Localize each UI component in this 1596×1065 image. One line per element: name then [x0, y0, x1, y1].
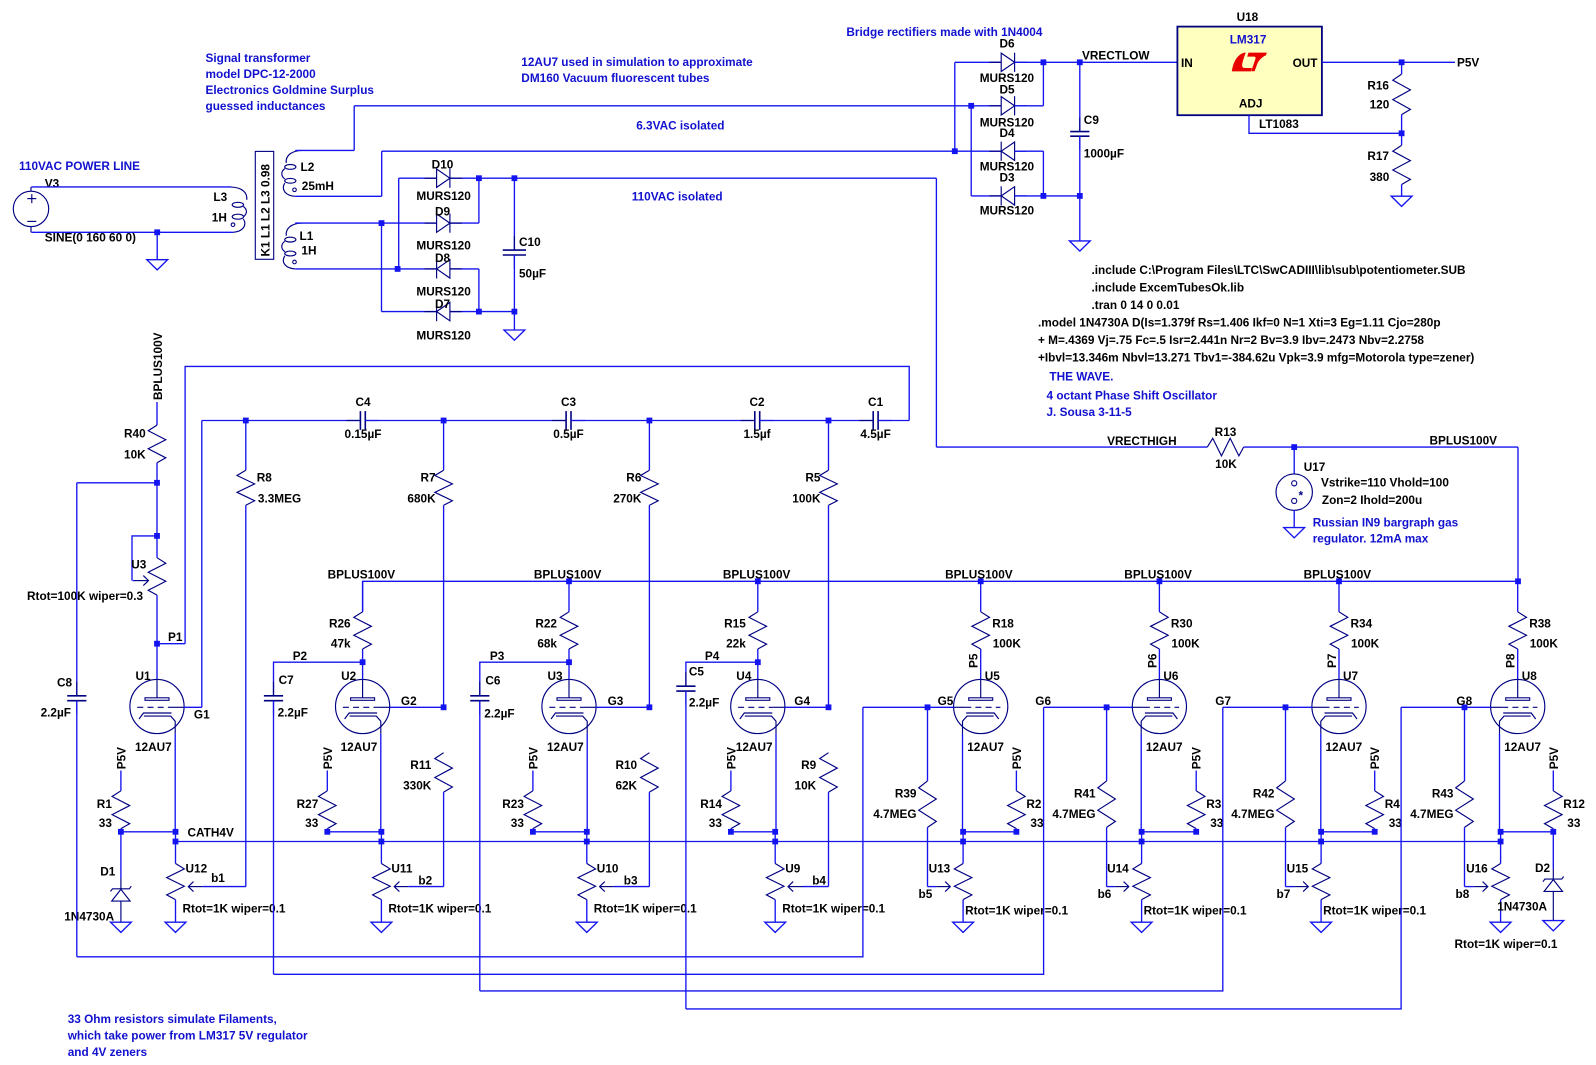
svg-text:U18: U18 — [1237, 10, 1259, 24]
wiper arrow b8 — [1465, 882, 1488, 892]
value U11 Rtot — [388, 902, 491, 916]
label C2 — [749, 395, 765, 409]
label C5 — [689, 664, 705, 678]
svg-text:P5V: P5V — [1547, 747, 1561, 769]
svg-text:R7: R7 — [421, 471, 437, 485]
label R17 — [1367, 149, 1389, 163]
potentiometer U9 — [766, 842, 784, 923]
wire to CATH4V stage 4 — [774, 832, 776, 842]
junction CATH4V stage 1 — [173, 839, 179, 845]
wire D10 row — [399, 177, 437, 179]
svg-text:C6: C6 — [485, 674, 501, 688]
wire cathode U5 — [962, 734, 964, 832]
wire cathode U2 — [380, 734, 382, 832]
wire D4 out — [1015, 150, 1044, 152]
svg-text:J. Sousa 3-11-5: J. Sousa 3-11-5 — [1047, 405, 1133, 419]
label R34 — [1351, 617, 1373, 631]
svg-text:2.2µF: 2.2µF — [484, 707, 514, 721]
net label P5V stage 6 — [1190, 747, 1204, 769]
svg-text:33: 33 — [511, 816, 525, 830]
net label b6 — [1098, 887, 1112, 901]
svg-text:R8: R8 — [257, 471, 273, 485]
wire G7 — [1223, 706, 1312, 708]
capacitor C1 — [859, 411, 892, 430]
svg-text:U10: U10 — [597, 862, 619, 876]
resistor R23 — [524, 771, 542, 832]
ground below U10 — [576, 922, 597, 932]
junction D10 out — [476, 175, 482, 181]
ground below D2 — [1543, 921, 1564, 931]
wire route C8 to G5 — [77, 707, 863, 957]
svg-text:6.3VAC isolated: 6.3VAC isolated — [636, 118, 724, 132]
label U9 — [785, 862, 801, 876]
svg-text:120: 120 — [1370, 98, 1390, 112]
svg-text:Rtot=1K wiper=0.1: Rtot=1K wiper=0.1 — [1323, 904, 1426, 918]
junction BPLUS at R30 — [1157, 578, 1163, 584]
wire VRECTHIGH riser — [935, 178, 937, 447]
net label P5V — [1457, 56, 1479, 70]
value R3 33 — [1210, 816, 1224, 830]
net label BPLUS100V — [723, 568, 791, 582]
junction CATH4V stage 8 — [1498, 839, 1504, 845]
wire to CATH4V stage 6 — [1141, 832, 1143, 842]
label D7 — [435, 297, 451, 311]
value R12 33 — [1567, 816, 1581, 830]
svg-text:U11: U11 — [391, 862, 412, 876]
svg-text:U6: U6 — [1163, 669, 1179, 683]
svg-text:U9: U9 — [785, 862, 801, 876]
svg-text:model DPC-12-2000: model DPC-12-2000 — [206, 67, 317, 81]
label C7 — [279, 673, 295, 687]
svg-text:U14: U14 — [1107, 862, 1129, 876]
wire riser to 110VAC — [381, 151, 383, 196]
resistor R34 — [1330, 581, 1348, 679]
comment 4 octant Phase Shift Oscillator — [1047, 389, 1218, 403]
svg-text:U2: U2 — [341, 669, 357, 683]
svg-text:R2: R2 — [1026, 797, 1042, 811]
potentiometer U3 — [133, 536, 166, 644]
wire D5 row — [971, 105, 1001, 107]
svg-text:2.2µF: 2.2µF — [278, 706, 308, 720]
ground below R17 — [1391, 196, 1412, 206]
svg-text:OUT: OUT — [1293, 56, 1319, 70]
resistor R22 — [560, 581, 578, 662]
junction G6 — [1104, 704, 1110, 710]
wire D5 out — [1015, 105, 1044, 107]
wire G4 — [785, 706, 829, 708]
junction BPLUS at R22 — [566, 578, 572, 584]
potentiometer U11 — [373, 842, 391, 923]
gas regulator U17 — [1276, 447, 1312, 527]
value D10 MURS120 — [416, 189, 471, 203]
net label P7 — [1325, 653, 1339, 668]
triode U4 (12AU7) — [731, 679, 785, 733]
svg-text:Signal transformer: Signal transformer — [206, 51, 311, 65]
label R3 — [1206, 797, 1222, 811]
value R5 100K — [792, 492, 821, 506]
svg-text:Rtot=1K wiper=0.1: Rtot=1K wiper=0.1 — [1455, 937, 1558, 951]
value U15 Rtot — [1323, 904, 1426, 918]
label R40 — [124, 427, 146, 441]
svg-text:33: 33 — [709, 816, 723, 830]
capacitor C2 — [741, 411, 774, 430]
svg-text:C7: C7 — [279, 673, 295, 687]
value D7 MURS120 — [416, 329, 471, 343]
net label P6 — [1145, 653, 1159, 668]
svg-text:P7: P7 — [1325, 653, 1339, 668]
label R41 — [1074, 787, 1096, 801]
comment DM160 tubes — [521, 71, 710, 85]
ground below U11 — [371, 922, 392, 932]
label R13 — [1215, 425, 1237, 439]
junction R40 bottom — [154, 480, 160, 486]
directive include potentiometer — [1092, 263, 1466, 277]
svg-text:*: * — [1299, 489, 1304, 503]
svg-text:U17: U17 — [1304, 460, 1326, 474]
net label P5V stage 4 — [724, 747, 738, 769]
value R16 120 — [1370, 98, 1390, 112]
junction C10 top — [512, 175, 518, 181]
value C3 0.5uF — [553, 427, 583, 441]
resistor R3 — [1187, 771, 1205, 832]
wiper arrow b6 — [1107, 882, 1129, 892]
wire D6-D5 tie — [1042, 62, 1044, 106]
capacitor C10 — [503, 178, 526, 330]
svg-text:b5: b5 — [919, 887, 933, 901]
resistor R2 — [1008, 771, 1026, 832]
junction filament R23 — [530, 829, 536, 835]
svg-text:G6: G6 — [1035, 694, 1051, 708]
junction filament R2 — [1014, 829, 1020, 835]
value U5 12AU7 — [967, 740, 1004, 754]
wire to CATH4V stage 8 — [1500, 832, 1502, 842]
value U7 12AU7 — [1326, 740, 1363, 754]
value R38 100K — [1530, 637, 1559, 651]
svg-text:100K: 100K — [993, 637, 1022, 651]
wire plate lead U3 — [568, 662, 570, 679]
wire cathode row stage 2 — [327, 831, 381, 833]
svg-text:BPLUS100V: BPLUS100V — [945, 568, 1013, 582]
svg-text:Zon=2 Ihold=200u: Zon=2 Ihold=200u — [1322, 493, 1422, 507]
wire C-row segment 4 — [760, 420, 874, 422]
wire D6 out — [1015, 61, 1044, 63]
capacitor C5 — [676, 672, 695, 1009]
svg-text:U8: U8 — [1522, 669, 1538, 683]
wire plate lead U4 — [757, 662, 759, 679]
resistor R7 — [435, 421, 453, 708]
svg-text:P5V: P5V — [526, 747, 540, 769]
svg-text:110VAC POWER LINE: 110VAC POWER LINE — [19, 159, 140, 173]
value U17 Zon — [1322, 493, 1422, 507]
label D10 — [432, 158, 454, 172]
wire feedback loop — [185, 366, 909, 643]
svg-text:D1: D1 — [100, 865, 116, 879]
svg-text:P5V: P5V — [1368, 747, 1382, 769]
svg-text:K1 L1 L2 L3 0.98: K1 L1 L2 L3 0.98 — [259, 164, 273, 257]
wire cathode row stage 7 — [1321, 831, 1375, 833]
svg-text:b2: b2 — [418, 874, 432, 888]
label C3 — [561, 395, 577, 409]
wire 6.3VAC to D5 — [354, 105, 971, 107]
label R6 — [626, 471, 642, 485]
svg-text:R9: R9 — [801, 758, 817, 772]
value C10 50uF — [519, 267, 546, 281]
comment and 4V zeners — [68, 1045, 148, 1059]
svg-text:L2: L2 — [301, 160, 315, 174]
value D4 MURS120 — [980, 160, 1035, 174]
wire D8 out — [450, 268, 479, 270]
svg-text:G5: G5 — [938, 694, 954, 708]
label C10 — [519, 235, 541, 249]
wire to CATH4V stage 5 — [962, 832, 964, 842]
net label P4 — [705, 649, 720, 663]
comment Russian IN9 bargraph gas — [1313, 516, 1459, 530]
svg-text:4.7MEG: 4.7MEG — [873, 807, 916, 821]
wire C-row segment 2 — [365, 420, 566, 422]
svg-text:VRECTHIGH: VRECTHIGH — [1107, 434, 1176, 448]
svg-text:P5V: P5V — [114, 747, 128, 769]
label U11 — [391, 862, 412, 876]
wire G3 — [596, 706, 649, 708]
wiper arrow b1 — [188, 882, 246, 892]
value D2 1N4730A — [1497, 900, 1547, 914]
triode U7 (12AU7) — [1312, 679, 1366, 733]
resistor R5 — [820, 421, 838, 708]
text LM317 — [1230, 32, 1267, 46]
svg-text:P5: P5 — [967, 653, 981, 668]
svg-text:P3: P3 — [490, 649, 505, 663]
resistor R41 — [1098, 707, 1116, 886]
triode U3 (12AU7) — [542, 679, 596, 733]
resistor R11 — [435, 753, 453, 887]
label U2 — [341, 669, 357, 683]
net label b1 — [211, 871, 225, 885]
svg-text:D6: D6 — [999, 37, 1015, 51]
wire V3 top to L3 — [31, 186, 231, 188]
ground below U15 — [1311, 922, 1332, 932]
junction G7 — [1283, 704, 1289, 710]
comment which take power — [67, 1029, 308, 1043]
label R26 — [329, 617, 351, 631]
svg-text:1000µF: 1000µF — [1084, 147, 1124, 161]
svg-text:and 4V zeners: and 4V zeners — [68, 1045, 148, 1059]
label D4 — [999, 126, 1015, 140]
net label P5V stage 5 — [1010, 747, 1024, 769]
svg-text:33: 33 — [1030, 816, 1044, 830]
value R14 33 — [709, 816, 723, 830]
svg-text:b6: b6 — [1098, 887, 1112, 901]
svg-text:G3: G3 — [608, 694, 624, 708]
svg-text:D2: D2 — [1535, 861, 1551, 875]
svg-text:D7: D7 — [435, 297, 451, 311]
ground below U16 — [1490, 922, 1511, 932]
svg-text:regulator. 12mA max: regulator. 12mA max — [1313, 532, 1429, 546]
svg-text:P6: P6 — [1145, 653, 1159, 668]
net label b2 — [418, 874, 432, 888]
wire D7 row — [382, 311, 437, 313]
value U3 12AU7 — [547, 740, 584, 754]
wire cathode row stage 5 — [963, 831, 1016, 833]
junction D4 row — [952, 148, 958, 154]
svg-text:C1: C1 — [868, 395, 884, 409]
value R9 10K — [795, 779, 817, 793]
wire D7 out — [450, 311, 479, 313]
net label G1 — [194, 708, 210, 722]
wire to ground — [156, 232, 158, 259]
net label b3 — [624, 874, 638, 888]
value R27 33 — [305, 816, 319, 830]
resistor R42 — [1277, 707, 1295, 886]
value R8 3.3MEG — [258, 492, 301, 506]
value U16 Rtot — [1455, 937, 1558, 951]
svg-text:110VAC isolated: 110VAC isolated — [632, 189, 723, 203]
wire D9 out — [450, 222, 479, 224]
svg-text:G8: G8 — [1456, 694, 1472, 708]
inductor L1 — [282, 223, 302, 269]
svg-text:R30: R30 — [1171, 617, 1193, 631]
label C1 — [868, 395, 884, 409]
svg-text:270K: 270K — [613, 492, 642, 506]
wire C-row segment 5 — [878, 420, 909, 422]
resistor R39 — [919, 707, 937, 886]
svg-text:0.5µF: 0.5µF — [553, 427, 583, 441]
junction D7 out — [476, 309, 482, 315]
comment 110VAC isolated — [632, 189, 723, 203]
wire D8-D7 tie — [478, 269, 480, 312]
svg-text:R42: R42 — [1253, 787, 1275, 801]
wire to CATH4V stage 2 — [380, 832, 382, 842]
wire route C5 to G8 — [686, 707, 1401, 1009]
svg-text:R43: R43 — [1432, 787, 1454, 801]
value U13 Rtot — [965, 904, 1068, 918]
svg-text:R10: R10 — [615, 758, 637, 772]
label V3 — [45, 177, 60, 191]
triode U8 (12AU7) — [1491, 679, 1545, 733]
svg-text:0.15µF: 0.15µF — [345, 427, 382, 441]
text K1 L1 L2 L3 0.98 — [259, 164, 273, 257]
net label b8 — [1456, 887, 1470, 901]
svg-text:2.2µF: 2.2µF — [689, 696, 719, 710]
capacitor C4 — [346, 411, 379, 430]
value R13 10K — [1215, 457, 1237, 471]
junction G3 — [647, 704, 653, 710]
junction G4 — [826, 704, 832, 710]
net label G5 — [938, 694, 954, 708]
comment regulator 12mA max — [1313, 532, 1429, 546]
value R23 33 — [511, 816, 525, 830]
net label P5V stage 3 — [526, 747, 540, 769]
wire R13 to BPLUS corner — [1244, 446, 1518, 448]
wire P4 — [686, 662, 758, 686]
svg-text:12AU7: 12AU7 — [1504, 740, 1541, 754]
regulator U18 LM317 block — [1177, 27, 1322, 116]
value C9 1000uF — [1084, 147, 1124, 161]
value SINE(0 160 60 0) — [45, 231, 136, 245]
label R7 — [421, 471, 437, 485]
wire cathode row stage 8 — [1501, 831, 1554, 833]
svg-text:R39: R39 — [895, 787, 917, 801]
resistor R17 — [1393, 133, 1411, 196]
svg-text:BPLUS100V: BPLUS100V — [328, 568, 396, 582]
svg-text:b4: b4 — [812, 874, 826, 888]
wire CATH4V rail — [176, 841, 1501, 843]
svg-text:VRECTLOW: VRECTLOW — [1082, 49, 1150, 63]
value L1 1H — [301, 244, 316, 258]
wiper arrow b4 — [788, 882, 829, 892]
svg-text:P5V: P5V — [1190, 747, 1204, 769]
svg-text:100K: 100K — [792, 492, 821, 506]
net label BPLUS100V — [534, 568, 602, 582]
wire plate lead U1 — [156, 644, 158, 680]
resistor R30 — [1151, 581, 1169, 679]
svg-text:50µF: 50µF — [519, 267, 546, 281]
capacitor C3 — [552, 411, 585, 430]
wire ADJ — [1249, 115, 1402, 133]
wire L1 top — [295, 222, 381, 224]
junction filament R4 — [1372, 829, 1378, 835]
svg-text:R27: R27 — [297, 797, 319, 811]
svg-text:10K: 10K — [795, 779, 817, 793]
svg-text:Russian IN9 bargraph gas: Russian IN9 bargraph gas — [1313, 516, 1459, 530]
wire cathode U8 — [1499, 734, 1501, 832]
label U7 — [1343, 669, 1359, 683]
net label G8 — [1456, 694, 1472, 708]
resistor R12 — [1545, 771, 1563, 832]
wire to D7 row — [381, 223, 383, 312]
wire plate lead U2 — [362, 662, 364, 679]
svg-text:P5V: P5V — [1010, 747, 1024, 769]
wire to CATH4V stage 7 — [1320, 832, 1322, 842]
net label b4 — [812, 874, 826, 888]
junction filament R14 — [728, 829, 734, 835]
svg-text:U5: U5 — [985, 669, 1001, 683]
value R17 380 — [1370, 170, 1390, 184]
svg-text:guessed inductances: guessed inductances — [206, 99, 326, 113]
value D3 MURS120 — [980, 204, 1035, 218]
svg-text:4.5µF: 4.5µF — [860, 427, 890, 441]
junction D6 out — [1041, 59, 1047, 65]
label U16 — [1466, 862, 1488, 876]
net label G2 — [401, 694, 417, 708]
svg-text:4.7MEG: 4.7MEG — [1231, 807, 1274, 821]
svg-text:R5: R5 — [805, 471, 821, 485]
value U17 Vstrike — [1321, 476, 1449, 490]
svg-text:Rtot=1K wiper=0.1: Rtot=1K wiper=0.1 — [1144, 904, 1247, 918]
svg-text:D9: D9 — [435, 205, 451, 219]
pin ADJ — [1239, 97, 1263, 111]
value L3 1H — [212, 211, 227, 225]
junction P3 — [566, 659, 572, 665]
comment guessed inductances — [206, 99, 326, 113]
zener diode D2 — [1543, 832, 1564, 921]
directive include ExcemTubesOk — [1092, 280, 1245, 294]
svg-text:U7: U7 — [1343, 669, 1359, 683]
value D5 MURS120 — [980, 115, 1035, 129]
svg-text:BPLUS100V: BPLUS100V — [534, 568, 602, 582]
ground below U17 — [1284, 528, 1305, 538]
svg-text:U3: U3 — [548, 669, 564, 683]
net label BPLUS100V right — [1430, 434, 1498, 448]
potentiometer U12 — [167, 842, 185, 923]
svg-text:ADJ: ADJ — [1239, 97, 1263, 111]
wire route C7 to G6 — [274, 707, 1044, 974]
wire cathode U6 — [1140, 734, 1142, 832]
svg-text:2.2µF: 2.2µF — [41, 706, 71, 720]
inductor L2 — [282, 150, 302, 196]
net label b5 — [919, 887, 933, 901]
svg-text:.include C:\Program Files\LTC\: .include C:\Program Files\LTC\SwCADIII\l… — [1092, 263, 1466, 277]
zener diode D1 — [111, 832, 132, 922]
